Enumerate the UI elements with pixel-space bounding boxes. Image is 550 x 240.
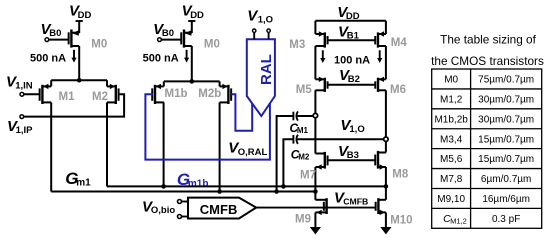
svg-text:M8: M8 <box>392 169 409 181</box>
svg-text:M2: M2 <box>298 152 310 161</box>
svg-text:30µm/0.7µm: 30µm/0.7µm <box>478 94 534 105</box>
svg-text:M1: M1 <box>59 91 76 103</box>
svg-text:B3: B3 <box>347 150 359 161</box>
svg-text:B0: B0 <box>49 28 61 39</box>
svg-text:1,IN: 1,IN <box>15 81 33 92</box>
svg-text:B1: B1 <box>347 31 360 42</box>
svg-text:1,IP: 1,IP <box>16 125 34 136</box>
svg-text:16µm/6µm: 16µm/6µm <box>482 194 530 205</box>
svg-text:15µm/0.7µm: 15µm/0.7µm <box>478 154 534 165</box>
svg-text:M10: M10 <box>390 215 412 227</box>
svg-text:100 nA: 100 nA <box>334 55 370 67</box>
svg-text:CMFB: CMFB <box>343 197 368 207</box>
svg-text:75µm/0.7µm: 75µm/0.7µm <box>478 75 534 86</box>
svg-text:M0: M0 <box>444 75 458 86</box>
svg-text:M7: M7 <box>300 169 316 181</box>
svg-text:M9: M9 <box>295 213 311 225</box>
svg-text:500 nA: 500 nA <box>143 53 179 65</box>
svg-text:M1,2: M1,2 <box>440 94 463 105</box>
svg-text:M2b: M2b <box>198 88 221 100</box>
svg-text:500 nA: 500 nA <box>30 53 66 65</box>
svg-text:m1b: m1b <box>188 178 209 189</box>
svg-text:RAL: RAL <box>258 54 275 85</box>
svg-text:O,bio: O,bio <box>151 205 175 216</box>
svg-text:m1: m1 <box>76 178 91 189</box>
svg-text:O,RAL: O,RAL <box>238 147 268 158</box>
svg-text:M0: M0 <box>91 39 107 51</box>
svg-text:M1: M1 <box>297 126 309 135</box>
svg-text:M1b: M1b <box>165 88 188 100</box>
svg-text:0.3 pF: 0.3 pF <box>492 214 520 225</box>
svg-text:M5,6: M5,6 <box>440 154 463 165</box>
svg-text:M1b,2b: M1b,2b <box>434 114 468 125</box>
svg-text:The table sizing of: The table sizing of <box>440 32 536 46</box>
svg-text:30µm/0.7µm: 30µm/0.7µm <box>478 114 534 125</box>
svg-text:DD: DD <box>190 10 204 21</box>
svg-text:M6: M6 <box>390 84 406 96</box>
svg-text:B2: B2 <box>348 74 360 85</box>
svg-text:CMFB: CMFB <box>200 202 238 217</box>
svg-text:M4: M4 <box>391 37 408 49</box>
svg-text:M1,2: M1,2 <box>450 217 467 226</box>
svg-text:6µm/0.7µm: 6µm/0.7µm <box>481 174 531 185</box>
svg-text:M3,4: M3,4 <box>440 134 463 145</box>
svg-text:M0: M0 <box>204 39 220 51</box>
svg-text:M9,10: M9,10 <box>437 194 465 205</box>
svg-text:M3: M3 <box>289 39 305 51</box>
svg-text:1,O: 1,O <box>258 15 273 26</box>
svg-text:M7,8: M7,8 <box>440 174 463 185</box>
svg-text:M5: M5 <box>296 84 313 96</box>
svg-text:B0: B0 <box>162 28 174 39</box>
svg-text:M2: M2 <box>92 91 108 103</box>
svg-text:DD: DD <box>78 10 92 21</box>
svg-text:1,O: 1,O <box>349 124 364 135</box>
svg-text:15µm/0.7µm: 15µm/0.7µm <box>478 134 534 145</box>
svg-text:the CMOS transistors: the CMOS transistors <box>431 54 544 68</box>
